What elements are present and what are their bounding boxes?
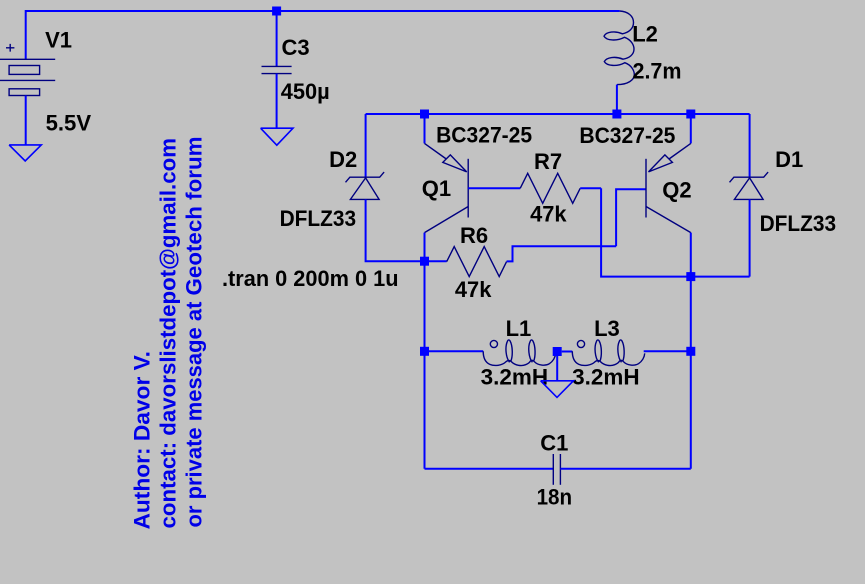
svg-text:D1: D1	[775, 147, 803, 172]
ground V1	[9, 145, 41, 161]
svg-text:BC327-25: BC327-25	[436, 122, 532, 147]
wire center tap to L3	[562, 351, 573, 353]
svg-text:DFLZ33: DFLZ33	[760, 211, 837, 236]
svg-text:C1: C1	[540, 430, 568, 455]
node junction L1 left	[420, 347, 429, 356]
wire C3 to ground	[276, 74, 278, 129]
wire Q2 collector down	[690, 233, 692, 469]
wire C3 top	[276, 11, 278, 66]
wire D2 top	[365, 114, 367, 177]
svg-text:47k: 47k	[455, 277, 492, 302]
svg-text:DFLZ33: DFLZ33	[280, 206, 357, 231]
svg-text:D2: D2	[329, 147, 357, 172]
wire Q2 base riser	[616, 189, 646, 246]
resistor R6	[425, 246, 617, 276]
svg-text:.tran 0 200m 0 1u: .tran 0 200m 0 1u	[222, 266, 399, 291]
wire second rail	[366, 113, 750, 115]
phase dot L1	[490, 340, 497, 347]
svg-text:R7: R7	[534, 149, 562, 174]
wire D1 bottom	[749, 200, 751, 277]
phase dot L3	[577, 340, 584, 347]
svg-text:Geotech forum: Geotech forum	[182, 137, 207, 296]
node junction L3 right	[686, 347, 695, 356]
ground C3	[261, 128, 293, 145]
svg-text:2.7m: 2.7m	[633, 58, 682, 83]
inductor L3	[572, 340, 644, 366]
wire V1 to ground	[25, 96, 27, 145]
node junction R6 / D2	[420, 257, 429, 266]
node junction R7 / D1	[686, 272, 695, 281]
svg-text:3.2mH: 3.2mH	[481, 364, 548, 389]
wire left to L1	[425, 350, 484, 352]
wire R7 to Q2 collector node	[601, 188, 750, 276]
capacitor C1	[553, 454, 560, 485]
wire bottom rail left	[425, 468, 554, 470]
wire L3 to right rail	[644, 350, 691, 352]
node junction top rail / C3	[272, 7, 281, 16]
svg-text:R6: R6	[460, 223, 488, 248]
inductor L1	[483, 340, 555, 366]
battery V1	[0, 44, 55, 96]
svg-text:L2: L2	[632, 21, 658, 46]
wire L2 to rail	[616, 85, 618, 114]
wire D2 bottom	[366, 200, 425, 262]
svg-text:450µ: 450µ	[281, 79, 330, 104]
svg-text:Q1: Q1	[422, 176, 451, 201]
wire bottom rail right	[560, 468, 690, 470]
svg-text:3.2mH: 3.2mH	[572, 364, 640, 389]
diode D2 (zener)	[346, 172, 385, 199]
svg-text:V1: V1	[45, 27, 72, 52]
node junction center tap	[553, 347, 562, 356]
svg-text:Author: Davor V.: Author: Davor V.	[130, 351, 155, 530]
transistor Q1	[425, 114, 469, 233]
svg-text:or private message at: or private message at	[182, 296, 207, 528]
wire Q1 collector down	[424, 233, 426, 469]
transistor Q2	[646, 114, 691, 233]
inductor L2	[604, 11, 634, 85]
svg-text:contact: davorslistdepot@gmail: contact: davorslistdepot@gmail.com	[155, 138, 180, 529]
capacitor C3	[262, 66, 292, 73]
ground center tap	[541, 381, 574, 398]
wire center tap to ground	[556, 352, 558, 381]
node junction Q1 emitter	[420, 110, 429, 119]
resistor R7	[468, 173, 601, 203]
svg-text:Q2: Q2	[662, 177, 691, 202]
svg-text:C3: C3	[282, 35, 310, 60]
diode D1 (zener)	[730, 172, 769, 199]
wire top rail V1 to L2	[26, 11, 620, 59]
svg-text:L1: L1	[506, 316, 532, 341]
svg-text:BC327-25: BC327-25	[579, 123, 675, 148]
svg-text:18n: 18n	[537, 484, 573, 509]
svg-text:5.5V: 5.5V	[46, 110, 92, 135]
node junction L2 bottom	[612, 110, 621, 119]
svg-text:L3: L3	[594, 316, 620, 341]
node junction Q2 emitter	[686, 110, 695, 119]
svg-text:47k: 47k	[530, 201, 567, 226]
wire D1 top	[749, 114, 751, 177]
